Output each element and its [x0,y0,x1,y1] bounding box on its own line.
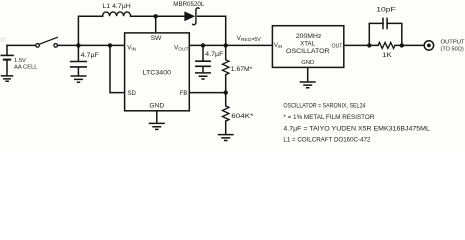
svg-text:1K: 1K [382,52,393,59]
node 10pF right [400,43,404,47]
node 10pF left [367,43,371,47]
svg-text:FB: FB [180,91,188,97]
wire FB [189,92,225,94]
resistor R2 604K [223,93,255,134]
label OUTPUT (TO 50 ohm) [441,40,465,53]
svg-text:(TO 50Ω): (TO 50Ω) [441,46,464,52]
ground (C1) [71,76,87,82]
svg-text:XTAL: XTAL [300,41,315,48]
svg-text:OUTPUT: OUTPUT [441,40,465,46]
svg-text:10pF: 10pF [376,6,395,13]
capacitor C3 10pF [369,6,402,45]
svg-text:200MHz: 200MHz [296,33,322,40]
inductor L1 [102,3,131,16]
svg-text:1.67M*: 1.67M* [231,66,253,73]
ground (U1) [149,123,165,129]
battery B1 [1,45,14,75]
wire battery to switch [7,44,36,46]
wire OUT to R3 [344,44,378,46]
svg-text:L1 4.7µH: L1 4.7µH [102,3,131,10]
svg-text:AA CELL: AA CELL [14,64,38,70]
svg-text:LTC3400: LTC3400 [143,69,172,76]
oscillator U2 200MHz XTAL [272,26,343,68]
op IC U1 LTC3400 [125,33,190,111]
ground (battery) [1,76,14,81]
node VREG [224,43,228,47]
svg-text:4.7µF: 4.7µF [205,51,224,58]
svg-text:* = 1% METAL FILM RESISTOR: * = 1% METAL FILM RESISTOR [283,114,374,121]
svg-text:1.5V: 1.5V [14,58,26,64]
wire VOUT to oscillator [189,44,272,46]
svg-text:OUT: OUT [332,44,343,50]
svg-text:OSCILLATOR = SARONIX, SEL24: OSCILLATOR = SARONIX, SEL24 [283,102,365,109]
svg-text:VIN: VIN [127,45,136,52]
capacitor C2 4.7uF [195,45,224,72]
resistor R3 1K [378,42,395,59]
connector J1 output [424,41,433,50]
wire SW pin [155,16,157,33]
wire top rail left [78,16,102,45]
node C2 [201,43,205,47]
svg-text:GND: GND [149,104,165,110]
capacitor C1 4.7uF [70,45,99,75]
svg-text:SW: SW [151,35,162,42]
wire U1 GND pin [156,111,158,123]
svg-text:MBR0520L: MBR0520L [173,1,204,8]
node SW [154,14,158,18]
wire rail diode to VREG corner [198,16,226,45]
svg-text:L1 = COILCRAFT DO160C-472: L1 = COILCRAFT DO160C-472 [283,137,370,144]
label 1.5V AA CELL [14,58,38,71]
node SD tap [108,43,112,47]
wire to output connector [395,44,424,46]
ground (U2) [300,82,316,88]
svg-text:4.7µF: 4.7µF [81,52,100,59]
switch S1 [36,37,58,47]
notes [283,102,430,143]
svg-text:SD: SD [128,91,137,97]
node FB junction [224,90,228,94]
svg-text:OSCILLATOR: OSCILLATOR [286,48,330,55]
svg-text:4.7µF = TAIYO YUDEN X5R EMK316: 4.7µF = TAIYO YUDEN X5R EMK316BJ475ML [283,125,430,132]
node input [76,43,80,47]
ground (R2) [218,135,234,141]
ground (C2) [195,73,211,79]
svg-text:GND: GND [301,60,314,66]
svg-text:VIN: VIN [274,43,282,49]
wire SD [110,45,125,92]
svg-text:604K*: 604K* [231,113,254,120]
wire switch to input node [58,44,125,46]
diode D1 MBR0520L [173,1,204,25]
wire U2 GND pin [307,67,309,81]
wire rail inductor to diode [131,15,185,17]
resistor R1 1.67M [223,45,253,92]
